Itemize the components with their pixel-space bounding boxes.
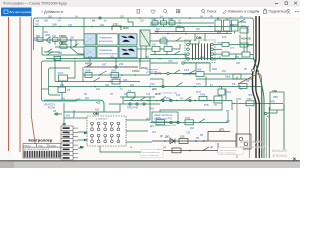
wire mid rail y86.5 — [49, 87, 263, 159]
svg-text:РУВ: РУВ — [166, 98, 171, 101]
relay РК3 — [232, 20, 239, 31]
svg-text:ДПч: ДПч — [152, 87, 158, 91]
svg-text:310: 310 — [52, 35, 57, 38]
wire relay row drops — [141, 46, 146, 59]
bus red wire — [238, 74, 261, 158]
relay ПРБ2 — [246, 98, 254, 106]
svg-text:цепь генератора: цепь генератора — [142, 155, 160, 157]
svg-text:170: 170 — [68, 24, 73, 27]
wire top rail 2 — [34, 26, 250, 28]
svg-text:306: 306 — [48, 15, 53, 18]
svg-text:402: 402 — [85, 97, 90, 100]
svg-text:ПС: ПС — [124, 93, 128, 96]
wire coil link — [62, 61, 75, 101]
resistor 300 — [36, 34, 43, 41]
wire links rows AB — [55, 18, 84, 47]
svg-text:ОМ: ОМ — [93, 112, 99, 116]
svg-text:ДК1: ДК1 — [165, 135, 170, 139]
wire row y103.5 right — [232, 103, 283, 105]
close button — [294, 2, 297, 5]
window title bar — [0, 0, 300, 7]
toolbar icon more — [295, 10, 299, 13]
svg-text:Поиск: Поиск — [207, 10, 217, 14]
terminal board ОМ2 circles row2 — [91, 134, 120, 143]
svg-text:РБ: РБ — [196, 137, 200, 140]
svg-text:РСТм: РСТм — [48, 106, 55, 110]
svg-text:РМВС: РМВС — [59, 41, 67, 45]
svg-text:РР: РР — [146, 119, 150, 121]
labels right of ОМ — [217, 43, 234, 60]
svg-text:305: 305 — [197, 68, 202, 72]
wire bus rail y31.5 — [155, 31, 232, 33]
relay group label box 2 — [97, 47, 118, 58]
svg-text:308: 308 — [58, 52, 63, 55]
bus green wire right — [268, 107, 270, 158]
red margin line 2 — [19, 17, 21, 152]
svg-text:РБ: РБ — [200, 135, 204, 137]
wire row y75 — [83, 74, 150, 76]
bus green merge wire — [254, 58, 265, 158]
label блокировка — [146, 69, 159, 74]
svg-text:4ПНЖ24: 4ПНЖ24 — [272, 154, 288, 158]
relay group box 2a — [84, 47, 96, 58]
svg-text:ЗМВ: ЗМВ — [85, 69, 91, 73]
svg-text:РЭ4: РЭ4 — [226, 91, 231, 94]
wire right frame corner — [251, 18, 254, 60]
node y150 dot — [189, 150, 191, 152]
relay РК2 — [224, 20, 231, 31]
resistor РЗ — [58, 87, 71, 93]
svg-text:включением: включением — [99, 40, 113, 43]
extra rail dots — [59, 17, 241, 87]
svg-text:301: 301 — [44, 31, 49, 34]
red margin line 3 — [31, 17, 36, 150]
wire stack top link — [75, 117, 87, 119]
svg-text:РУС: РУС — [241, 25, 246, 28]
resistor y29 — [176, 25, 184, 31]
relay coil РМВ2 — [59, 34, 67, 42]
svg-text:437: 437 — [102, 62, 107, 66]
toolbar icon heart — [151, 10, 155, 14]
label box обрыв контроля — [152, 112, 178, 122]
svg-text:443: 443 — [76, 98, 81, 102]
wire drops x155 x167 — [155, 51, 186, 58]
svg-text:Р4Э: Р4Э — [184, 68, 189, 72]
node open circles y122.5 — [170, 121, 179, 123]
toolbar item search — [202, 10, 217, 14]
node mid1 — [115, 58, 117, 60]
svg-text:302: 302 — [145, 56, 150, 59]
svg-text:295 РУ: 295 РУ — [113, 75, 122, 79]
wire top cluster — [150, 22, 214, 24]
toolbar icon zoom — [164, 10, 168, 14]
svg-text:РРБ: РРБ — [270, 101, 275, 104]
svg-text:294: 294 — [200, 56, 205, 59]
svg-text:РСТ: РСТ — [58, 71, 63, 75]
relay РВБ box — [270, 90, 284, 110]
svg-text:КЛ: КЛ — [63, 122, 67, 126]
wire row y55 — [42, 47, 84, 55]
wire РПБ drop — [160, 103, 222, 123]
svg-text:294: 294 — [119, 62, 124, 66]
svg-text:цепь генератора: цепь генератора — [219, 153, 237, 155]
relay box x164 y47 — [164, 44, 172, 52]
wire row A — [34, 39, 85, 41]
wire loop outer — [42, 61, 96, 101]
svg-text:ДР1: ДР1 — [150, 126, 155, 128]
red margin line 1 — [8, 17, 10, 151]
wire y61 extension — [95, 60, 150, 62]
resistor right top — [240, 43, 248, 47]
node rk dot — [217, 17, 219, 19]
relay group box 1b — [119, 34, 137, 45]
svg-text:ЗР: ЗР — [244, 69, 247, 71]
wire bus rail y33.5 — [150, 33, 232, 35]
bus gray wire 1 — [236, 98, 238, 158]
toolbar item share — [264, 9, 288, 14]
node row A junction — [70, 39, 72, 41]
wire vertical x218 — [217, 143, 219, 153]
wire y63-74 link — [184, 63, 210, 72]
lamp box ОЛ — [236, 134, 251, 149]
svg-text:Р5: Р5 — [232, 82, 236, 86]
relay РЭ4 — [218, 87, 231, 96]
relay box y86.5 right — [232, 82, 247, 89]
svg-text:294: 294 — [226, 120, 231, 123]
terminal block ОМ pin circles left — [187, 43, 190, 60]
wire row y104 — [109, 103, 160, 105]
wire ОМ2 exit — [126, 141, 152, 143]
svg-text:442: 442 — [162, 35, 167, 39]
svg-text:от контроля +1В: от контроля +1В — [160, 92, 177, 94]
svg-text:ПУ: ПУ — [180, 98, 184, 101]
wire row y100.5 — [124, 100, 232, 102]
wire drops rk — [195, 18, 227, 41]
svg-text:286: 286 — [70, 37, 75, 40]
svg-text:150: 150 — [180, 135, 185, 139]
svg-text:дверей МВ: дверей МВ — [146, 71, 158, 74]
svg-text:170: 170 — [113, 22, 118, 26]
relay РК1 — [215, 20, 222, 31]
wire loop inner — [49, 68, 71, 95]
resistor right mid — [242, 52, 250, 57]
svg-text:переключением: переключением — [99, 53, 117, 56]
svg-text:ЗОВ: ЗОВ — [212, 68, 217, 71]
node mid2 — [139, 58, 141, 60]
svg-text:РП2: РП2 — [185, 116, 191, 120]
relay box y76 right — [225, 74, 241, 79]
svg-text:СРМС: СРМС — [132, 69, 140, 73]
wire 442 branch — [150, 40, 190, 42]
svg-text:ПУ: ПУ — [214, 105, 218, 107]
terminal block ОМ dashed box — [185, 40, 215, 63]
wire row y63 right — [150, 59, 178, 69]
contactor ПК2 — [161, 21, 167, 25]
terminal block ОМ comb bars — [193, 44, 211, 61]
wire z-jog x130 — [128, 18, 133, 27]
resistor 150 — [179, 135, 188, 144]
terminal board ОМ2 circles row1 — [91, 122, 120, 131]
svg-text:ДП1: ДП1 — [219, 128, 225, 132]
relay РП2 — [185, 116, 194, 125]
relay ЗМЗ — [111, 69, 119, 78]
photo bottom edge — [0, 160, 300, 162]
svg-text:ОМ: ОМ — [196, 36, 202, 40]
svg-text:Изменить и создать: Изменить и создать — [228, 10, 259, 14]
svg-text:305: 305 — [235, 56, 240, 59]
svg-text:343: 343 — [164, 44, 169, 47]
toolbar item edit-create — [223, 10, 259, 14]
node rail2 dot — [91, 26, 93, 28]
wire row y79 right — [196, 77, 253, 80]
wire ОМ2 bottom drop — [100, 146, 141, 152]
svg-text:ДР: ДР — [160, 136, 164, 138]
svg-text:403: 403 — [150, 108, 155, 111]
svg-text:ОБЗОР СХЕМ: ОБЗОР СХЕМ — [240, 145, 267, 150]
wire row y73.5 — [150, 73, 196, 75]
svg-text:ПР2: ПР2 — [248, 95, 253, 97]
svg-text:Поделиться: Поделиться — [269, 10, 288, 14]
svg-text:Р1б: Р1б — [156, 116, 161, 120]
wire vertical x55 — [54, 59, 56, 82]
node y100.5 dots — [169, 100, 211, 102]
svg-text:ЛУЗ: ЛУЗ — [168, 60, 173, 63]
bus gray wire 3 — [265, 118, 267, 158]
svg-text:РВБ: РВБ — [273, 96, 278, 99]
svg-text:294: 294 — [100, 24, 105, 27]
wire row y81 — [55, 81, 140, 83]
connector stack body — [61, 126, 78, 160]
node y86.5 open — [162, 85, 164, 87]
wire left frame corner — [34, 18, 37, 50]
node 44 on bus — [252, 69, 260, 73]
resistor 302m — [54, 55, 115, 61]
wire y44 right — [190, 41, 199, 44]
switch y52 left — [44, 49, 60, 52]
relay РПБ — [214, 96, 222, 103]
svg-text:437: 437 — [88, 56, 93, 59]
node y61 dot — [139, 60, 141, 62]
node y86.5 dots2 — [194, 86, 221, 88]
relay group label box 1 — [97, 34, 118, 45]
gray caption box 2 — [218, 148, 243, 155]
switch y122.5 — [199, 119, 205, 123]
relay Р1б — [156, 116, 165, 125]
wire mid rail y58.5 — [46, 58, 254, 60]
relay РСТ — [58, 71, 68, 81]
svg-text:ДР: ДР — [210, 146, 214, 149]
svg-text:4604 (Я): 4604 (Я) — [241, 37, 251, 41]
node y41 dot — [189, 40, 191, 42]
wire comb links right — [244, 45, 253, 55]
sprinkled labels — [48, 15, 250, 149]
svg-text:Фотографии — Схема ТРМ160М-Буд: Фотографии — Схема ТРМ160М-Буда — [3, 2, 67, 6]
wire dark row — [84, 66, 138, 68]
svg-text:ПРБ ПРМ: ПРБ ПРМ — [127, 107, 138, 110]
svg-text:ПШ6: ПШ6 — [225, 76, 231, 79]
svg-text:+ Добавить в: + Добавить в — [41, 10, 63, 14]
relay coil РМВС — [59, 41, 67, 48]
svg-text:МАШИН: МАШИН — [272, 149, 287, 153]
svg-text:300: 300 — [34, 37, 39, 40]
svg-text:РМ: РМ — [85, 61, 89, 65]
resistor bottom — [172, 148, 181, 153]
svg-text:ОВБ: ОВБ — [272, 90, 277, 93]
svg-text:ПШ: ПШ — [177, 25, 181, 28]
svg-text:Реверс: Реверс — [24, 145, 32, 147]
svg-text:34В: 34В — [52, 23, 57, 27]
minimize button — [275, 2, 278, 5]
gray caption box 1 — [141, 150, 163, 158]
wire right top drop — [246, 27, 248, 44]
svg-text:302: 302 — [35, 23, 40, 27]
svg-text:АИВ ВИДЕО: АИВ ВИДЕО — [240, 139, 264, 144]
svg-text:КЛ1: КЛ1 — [66, 115, 71, 118]
relay 305 — [196, 68, 204, 77]
wire comb to bus links — [222, 45, 253, 60]
wires into ОМ2 — [78, 132, 87, 148]
pin stub components right of ОМ — [222, 42, 229, 56]
wire verticals upper mid — [83, 59, 150, 83]
switch top right — [238, 19, 246, 27]
svg-text:ЗМЗ: ЗМЗ — [111, 69, 117, 73]
connector stack ticks — [63, 127, 70, 158]
switch y100.5 b — [185, 97, 191, 101]
wire drop row A to row B — [55, 40, 84, 47]
wire bottom row y141 — [152, 140, 236, 142]
resistor 442 — [160, 35, 167, 43]
svg-text:306: 306 — [150, 24, 155, 27]
wire ОМ2 exits right — [126, 110, 150, 131]
wire vertical x123 — [123, 97, 150, 110]
svg-text:295: 295 — [60, 84, 65, 87]
node y141 dot1 — [164, 140, 166, 142]
relay group box 1a — [84, 34, 96, 45]
wire x43 drop — [43, 27, 84, 59]
svg-text:РМВ2: РМВ2 — [59, 34, 67, 38]
svg-text:РЗ: РЗ — [67, 88, 71, 92]
node open circle row y67 — [115, 59, 117, 69]
svg-text:Контроллер: Контроллер — [29, 137, 53, 142]
arrowheads into ОМ2 — [80, 132, 88, 148]
wire top rail 1 — [36, 17, 251, 19]
node stack circles — [55, 113, 57, 115]
wire OM bottom exit — [183, 63, 196, 75]
svg-text:Все фотографии: Все фотографии — [10, 10, 33, 14]
svg-text:Т2б: Т2б — [146, 93, 151, 96]
bus dark wire 2 — [256, 16, 259, 158]
desk strip shadow left — [0, 162, 14, 168]
svg-text:306: 306 — [123, 78, 128, 82]
contactor ПК3 — [168, 18, 175, 25]
controller table headers — [24, 145, 57, 147]
switch row y75 — [99, 71, 107, 75]
switch row y73.5 — [174, 70, 180, 74]
svg-text:в(Л): в(Л) — [230, 48, 234, 50]
wire ДП1 loop — [208, 132, 230, 142]
switch row y81 — [93, 78, 100, 82]
svg-text:4 (15)ПанЭ: 4 (15)ПанЭ — [96, 119, 108, 121]
wire teal route — [44, 100, 104, 112]
svg-text:294: 294 — [130, 84, 135, 87]
diode ДК1 — [165, 135, 175, 144]
switch РМ dark — [85, 61, 92, 67]
terminal board ОМ2 box — [87, 116, 126, 146]
svg-text:ЭМС: ЭМС — [123, 26, 129, 30]
node open circles y104 — [129, 103, 145, 105]
svg-text:РУН: РУН — [196, 92, 201, 94]
wire y89 stub — [42, 88, 49, 90]
switch contact top cluster — [176, 38, 181, 41]
controller barcode — [24, 151, 60, 158]
wire drops top cluster — [155, 18, 172, 27]
maximize button — [285, 2, 288, 5]
toolbar icon slideshow — [137, 10, 140, 14]
electromagnet ЭМС — [112, 22, 129, 30]
svg-text:обрыв контроля РП1: обрыв контроля РП1 — [155, 125, 177, 127]
toolbar background — [0, 7, 300, 17]
node y141 dot2 — [195, 140, 197, 142]
wire РВБ drop — [267, 110, 277, 113]
svg-text:Выход минусовая: Выход минусовая — [219, 150, 238, 152]
node cluster dot1 — [179, 22, 181, 24]
svg-text:ПС: ПС — [110, 94, 114, 96]
svg-text:Р13: Р13 — [150, 82, 155, 86]
svg-text:Р(Л): Р(Л) — [217, 43, 222, 45]
node y33.5 dot2 — [185, 33, 187, 35]
node open circle 1470 — [167, 72, 169, 74]
switch y86.5 — [176, 83, 183, 87]
watermark text — [240, 139, 288, 158]
terminal block ОМ right pins — [211, 43, 222, 60]
svg-text:ПР: ПР — [246, 80, 250, 83]
switch x174 y54 — [150, 51, 186, 55]
node y141 dot3 — [203, 140, 205, 142]
bus gray wire 2 — [249, 108, 251, 158]
toolbar icon resize — [177, 10, 180, 13]
wire diagonal row B down — [70, 47, 84, 54]
relay ППв — [199, 93, 207, 101]
arrow bottom left — [155, 149, 159, 152]
svg-text:736: 736 — [186, 132, 191, 135]
relay group box 2b — [119, 47, 137, 58]
wire y79 right — [150, 79, 163, 85]
node y63 open — [182, 62, 184, 64]
relay РУ — [112, 75, 122, 84]
contactor ПК1 — [151, 18, 158, 25]
wire verticals right — [206, 31, 247, 110]
wire row y74 right — [183, 73, 254, 75]
wire into stack top — [54, 103, 74, 126]
node row y75 — [121, 74, 123, 76]
all-photos blue button — [1, 8, 32, 17]
relay box x152 y47 — [152, 44, 160, 52]
scanned schematic paper — [0, 17, 300, 160]
svg-text:98765432101234567: 98765432101234567 — [24, 149, 50, 151]
svg-text:310: 310 — [230, 24, 235, 27]
svg-text:403: 403 — [96, 101, 101, 105]
wire row y49 — [137, 44, 180, 49]
controller table — [23, 144, 61, 159]
wire bottom row y150 — [155, 150, 232, 152]
node y100.5 dots extra — [147, 100, 178, 102]
add-to button — [41, 10, 63, 14]
sprinkled labels 2 — [44, 16, 253, 149]
resistor 310 — [53, 38, 59, 42]
relay Т2 — [127, 89, 135, 97]
wire row y97 — [120, 96, 155, 98]
svg-text:Т2Н: Т2Н — [196, 83, 201, 86]
